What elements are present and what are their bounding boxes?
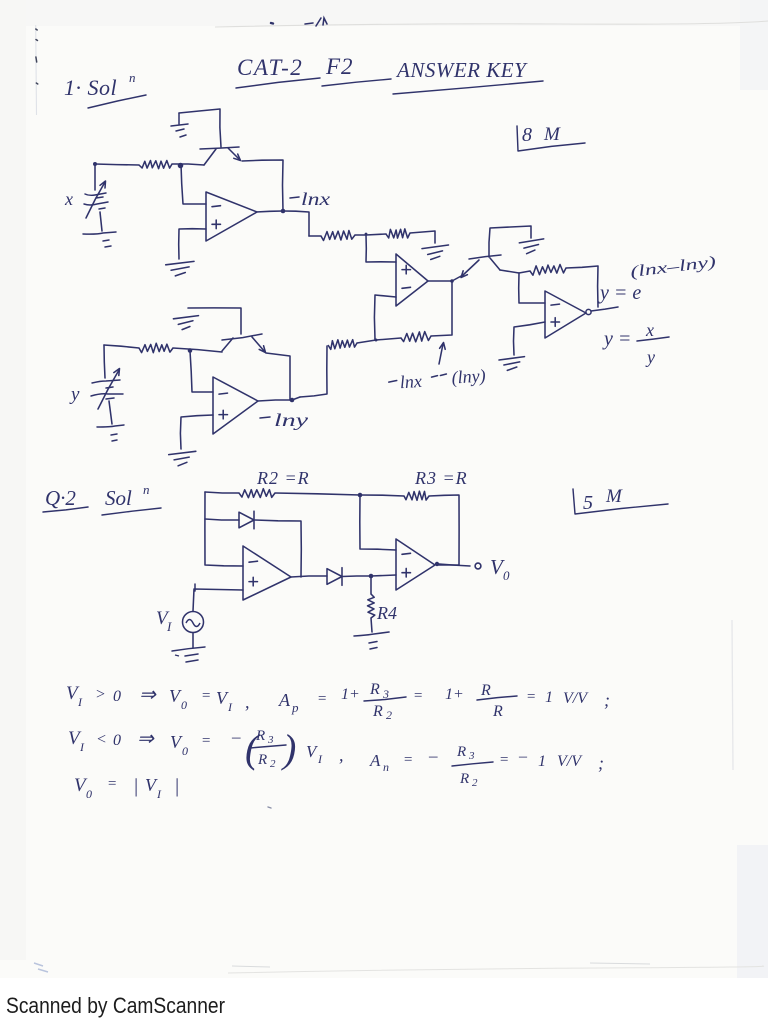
svg-text:|: | [133, 775, 139, 797]
svg-text:,: , [245, 692, 250, 712]
wire Q3 base to ground loop [188, 308, 241, 334]
wire VI to ground [192, 633, 194, 648]
math line 1 = 1+R/R [413, 682, 517, 720]
resistor R7 (feedback U3) [530, 265, 566, 276]
source Vy (variable) [91, 345, 124, 427]
svg-text:V/V: V/V [557, 753, 583, 770]
ground G1 (base of Q1) [171, 113, 188, 137]
svg-text:2: 2 [386, 708, 392, 722]
node F junction [188, 348, 193, 353]
op-amp U6 [396, 539, 435, 590]
svg-text:n: n [143, 482, 150, 497]
node C output U2 [450, 279, 454, 283]
svg-text:I: I [166, 619, 172, 634]
svg-text:0: 0 [113, 688, 121, 705]
wire U3 output [591, 307, 618, 311]
svg-text:=: = [413, 688, 423, 704]
svg-text:<: < [96, 731, 107, 748]
wire -lny from stage below [300, 346, 327, 397]
svg-text:ANSWER KEY: ANSWER KEY [395, 58, 528, 82]
terminal Vo [475, 563, 481, 569]
resistor R3 (Q2 ckt) [404, 491, 429, 500]
stray pen marks top [271, 18, 327, 26]
diode D2 [327, 568, 342, 586]
wire top left corner [205, 492, 239, 493]
wire R4 to ground [371, 618, 372, 632]
underline question 1 [88, 95, 146, 108]
wire D1 to U5 output [255, 520, 301, 577]
label y=e [598, 282, 641, 304]
wire U4 plus to ground [180, 415, 213, 449]
math line 1 implies [139, 684, 157, 706]
svg-text:0: 0 [181, 698, 187, 712]
svg-text:lny: lny [274, 410, 308, 430]
svg-text:x: x [645, 320, 654, 340]
math line 2 = -1V/V [499, 748, 604, 773]
label question 1 Soln [64, 70, 136, 100]
node A junction [178, 163, 184, 169]
marks box 5 M [573, 486, 668, 514]
wire node B to U2 plus [366, 235, 396, 262]
heading ANSWER KEY [395, 58, 528, 82]
label R2=R [256, 468, 310, 488]
wire R5 to node D [357, 340, 376, 343]
svg-text:1+: 1+ [445, 686, 464, 703]
heading CAT-2 [237, 55, 303, 80]
wire Q2 base to ground loop [489, 226, 531, 257]
wire U1 plus input to ground [179, 229, 206, 259]
footer Scanned by CamScanner [6, 993, 225, 1018]
label Soln [105, 482, 150, 510]
wire U3 plus to ground [514, 322, 546, 355]
ground G4 (Q2 base) [519, 239, 543, 254]
wire to diode D1 [205, 519, 239, 520]
source Vx (variable) [83, 164, 116, 234]
math line 1 Ap= [278, 690, 327, 715]
wire R6 to output [431, 281, 452, 336]
U6 output bubble [435, 562, 439, 566]
label R4 [376, 603, 397, 623]
op-amp U5 [243, 546, 291, 600]
wire U2 output [428, 280, 452, 282]
resistor R1 (x input) [139, 161, 172, 169]
ground G5 (U3 +) [499, 357, 525, 371]
svg-text:;: ; [604, 690, 610, 710]
svg-text:5: 5 [583, 492, 593, 514]
wire R3 to U6 output [429, 495, 459, 565]
resistor R2 (Q2 ckt) [239, 489, 275, 498]
underline F2 [322, 79, 391, 86]
node D junction [375, 339, 378, 342]
math line 2 Vo= [170, 732, 211, 758]
wire node D up to minus [375, 339, 376, 340]
svg-text:(lny): (lny) [451, 365, 486, 388]
svg-text:–: – [428, 746, 438, 765]
wire node D to R6 [376, 338, 401, 340]
svg-text:lnx: lnx [399, 371, 422, 392]
svg-text:0: 0 [86, 787, 92, 801]
resistor R2 (lnx path) [321, 231, 355, 241]
svg-text:R3 =R: R3 =R [414, 468, 468, 488]
wire y input [104, 345, 139, 348]
svg-text:R: R [492, 703, 503, 720]
wire R7 to U3 output [566, 266, 598, 307]
svg-text:Q·2: Q·2 [45, 486, 76, 510]
svg-text:A: A [369, 751, 381, 770]
math line 3 Vo=|VI| [74, 775, 180, 801]
wire R2 to node G [275, 493, 360, 495]
op-amp U1 [206, 192, 257, 241]
transistor Q2 [461, 255, 501, 278]
diode D1 [239, 511, 254, 529]
svg-text:2: 2 [270, 758, 276, 770]
op-amp U3 [545, 291, 586, 338]
svg-text:R: R [255, 728, 265, 744]
wire R2 to node B [355, 234, 366, 236]
annotation arrow [439, 343, 445, 365]
svg-text:>: > [95, 686, 106, 703]
svg-text:R2 =R: R2 =R [256, 468, 310, 488]
label -lnx [290, 189, 330, 209]
ground G2b (below Vx) [103, 240, 111, 247]
label exponent lnx-lny [629, 254, 716, 281]
svg-text:=: = [107, 776, 117, 792]
label y=x/y [602, 320, 669, 367]
svg-text:y: y [645, 347, 655, 367]
svg-text:|: | [174, 775, 180, 797]
wire R2b to ground [410, 231, 435, 243]
wire Q1 base to ground loop [179, 109, 221, 147]
ground G2 (U1 +) [166, 261, 194, 276]
svg-text:A: A [278, 690, 291, 710]
underline Soln [102, 508, 161, 515]
ground G7b (below Vy) [111, 434, 117, 441]
svg-text:y =: y = [602, 328, 631, 350]
math line 2 An=-R3/R2 [369, 744, 493, 789]
svg-text:n: n [383, 760, 389, 774]
node B junction [365, 233, 368, 236]
label x [64, 189, 73, 209]
svg-text:R: R [372, 703, 383, 720]
svg-text:R4: R4 [376, 603, 397, 623]
svg-text:=: = [317, 691, 327, 707]
svg-text:3: 3 [267, 734, 274, 746]
wire U2 minus loop [374, 295, 396, 339]
svg-text:R: R [480, 682, 491, 699]
ground G7 (U4 +) [169, 451, 196, 466]
underline Q.2 [43, 507, 88, 512]
wire node B to R2b [366, 234, 386, 235]
svg-text:;: ; [598, 753, 604, 773]
wire to summing node A [172, 164, 204, 165]
svg-text:n: n [129, 70, 136, 85]
resistor R5 (lny path) [328, 340, 357, 350]
underline ANSWER KEY [393, 81, 543, 94]
svg-text:2: 2 [472, 777, 478, 789]
svg-text:=: = [201, 733, 211, 749]
svg-text:R: R [369, 681, 380, 698]
wire node H to R4 [370, 576, 372, 594]
wire R8 to node F [173, 348, 222, 352]
ground G9 (VI) [172, 647, 205, 662]
wire D2 to node H [342, 575, 371, 578]
ground G6 (base of Q3) [173, 316, 198, 330]
label y input [69, 384, 80, 405]
ground G8 (R4) [354, 632, 389, 649]
math line 1 VI>0 [66, 683, 121, 709]
svg-text:V/V: V/V [563, 690, 589, 707]
svg-text:1+: 1+ [341, 686, 360, 703]
svg-text:–: – [231, 727, 241, 746]
svg-text:F2: F2 [325, 54, 354, 79]
svg-text:CAT-2: CAT-2 [237, 55, 303, 80]
transistor Q1 [200, 147, 241, 165]
ground G3 [422, 245, 449, 260]
svg-text:–: – [518, 748, 528, 765]
label VI [156, 608, 172, 634]
math line 2 -(R3/R2)VI [231, 726, 344, 771]
svg-text:y = e: y = e [598, 282, 641, 304]
resistor R2b (to ground) [386, 229, 410, 238]
svg-text:lnx: lnx [301, 189, 330, 209]
wire VI to U5 plus [193, 584, 243, 611]
svg-text:M: M [543, 124, 561, 145]
wire U6 output to Vo [439, 564, 470, 566]
wire U5 output [291, 576, 327, 577]
svg-text:3: 3 [468, 750, 475, 762]
wire output to lny path [292, 397, 300, 400]
node -lnx output [281, 209, 286, 214]
label -lnx--(lny) [388, 365, 486, 393]
svg-text:M: M [605, 486, 623, 507]
resistor R6 (feedback U2) [401, 332, 431, 342]
svg-text:⇒: ⇒ [139, 684, 157, 706]
wire Q3 emitter to output [266, 353, 290, 400]
wire node A to inverting input [181, 164, 206, 204]
svg-text:R: R [456, 744, 466, 760]
op-amp U4 [213, 377, 258, 434]
label R3=R [414, 468, 468, 488]
wire node E to U3 minus [519, 273, 545, 303]
svg-text:R: R [459, 771, 469, 787]
U3 output bubble [586, 309, 591, 314]
wire U4 output [258, 400, 292, 401]
svg-text:0: 0 [113, 732, 121, 749]
svg-text:p: p [291, 700, 299, 715]
transistor Q3 [222, 334, 266, 353]
label -lny [260, 410, 308, 430]
svg-text:=: = [499, 752, 509, 768]
svg-text:Scanned by CamScanner: Scanned by CamScanner [6, 993, 225, 1018]
math line 1 Vo=VI [169, 686, 250, 714]
wire -lnx to stage 2 [283, 211, 309, 236]
svg-text:1: 1 [545, 689, 553, 706]
wire U2 output to Q2 emitter [452, 275, 463, 281]
wire into R2 [309, 235, 321, 237]
wire U1 output [256, 211, 283, 212]
node -lny output [290, 398, 295, 403]
svg-text:⇒: ⇒ [137, 728, 155, 750]
svg-text:): ) [281, 726, 296, 771]
math line 1 = 1 V/V [526, 689, 610, 710]
svg-text:0: 0 [182, 744, 188, 758]
wire node G to R3 [360, 495, 404, 496]
svg-text:1: 1 [538, 753, 546, 770]
wire Q2 collector to node E [500, 270, 519, 273]
source VI [183, 612, 204, 633]
wire x input [95, 164, 139, 165]
wire node H to U6 plus [371, 575, 396, 576]
underline CAT-2 [236, 78, 320, 88]
resistor R4 [368, 594, 375, 618]
input node x [93, 162, 97, 166]
heading F2 [325, 54, 354, 79]
svg-text:x: x [64, 189, 73, 209]
stray speck below math [268, 807, 271, 808]
math line 2 implies [137, 728, 155, 750]
wire node G to U6 minus [360, 495, 396, 550]
svg-text:1· Sol: 1· Sol [64, 75, 117, 100]
wire left rail [205, 492, 243, 566]
marks box 8 M [517, 124, 585, 151]
math line 2 VI<0 [68, 728, 121, 754]
svg-text:=: = [201, 688, 211, 704]
label Vo [490, 555, 510, 583]
resistor R8 (y input) [139, 343, 173, 352]
node H junction [369, 574, 374, 579]
svg-text:y: y [69, 384, 80, 405]
svg-text:R: R [257, 752, 267, 768]
wire node E to R7 [519, 271, 530, 273]
svg-text:Sol: Sol [105, 486, 132, 510]
svg-text:8: 8 [522, 124, 532, 146]
svg-text:=: = [526, 689, 536, 705]
svg-text:0: 0 [503, 568, 510, 583]
math line 1 1+R3/R2 [341, 681, 406, 722]
label Q.2 [45, 486, 76, 510]
wire Q1 collector to output [242, 160, 283, 211]
op-amp U2 [396, 254, 428, 306]
svg-text:,: , [339, 745, 344, 765]
node G junction [358, 493, 363, 498]
wire node F to U4 minus [190, 351, 213, 392]
svg-text:=: = [403, 752, 413, 768]
